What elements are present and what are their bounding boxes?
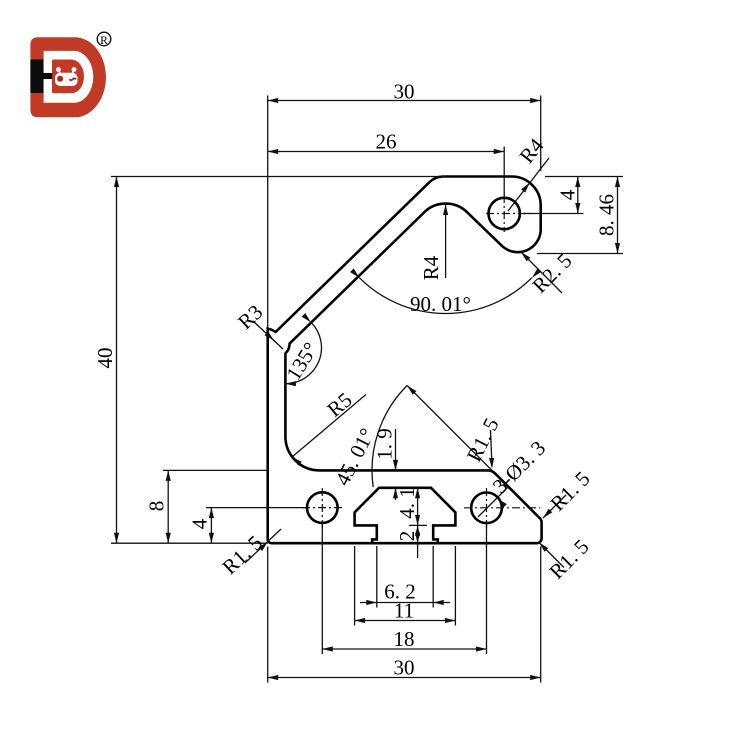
leader R5	[292, 395, 366, 458]
leader R1.5 right-mid	[543, 495, 566, 518]
svg-text:40: 40	[93, 348, 117, 369]
dim 4 left	[210, 508, 212, 544]
svg-text:90. 01°: 90. 01°	[410, 292, 471, 316]
logo inner red blob	[52, 60, 84, 94]
dim 135 deg	[285, 322, 321, 384]
svg-text:26: 26	[376, 130, 397, 154]
dim 18	[322, 648, 486, 650]
T-slot channel	[355, 488, 456, 543]
svg-text:30: 30	[394, 656, 415, 680]
profile outline	[268, 176, 542, 543]
leader R4 top-right	[508, 158, 549, 211]
dim 11	[355, 620, 456, 622]
svg-text:4: 4	[188, 518, 212, 529]
leader 3-dia3.3	[478, 487, 508, 517]
centerline bottom-right hole	[464, 507, 540, 509]
dim 8.46	[617, 177, 619, 254]
logo outer red D ring	[30, 37, 106, 117]
svg-text:R: R	[100, 35, 108, 47]
hole bottom-left	[307, 492, 338, 523]
svg-text:2: 2	[395, 531, 419, 542]
hole bottom-right	[471, 493, 502, 524]
dim 1.9	[395, 429, 397, 470]
svg-text:30: 30	[394, 80, 415, 104]
svg-text:18: 18	[394, 627, 415, 651]
logo black H bar	[30, 60, 43, 94]
dim 30 bottom	[268, 677, 541, 679]
centerline bottom-left hole	[302, 507, 344, 509]
dim 26	[268, 151, 505, 153]
leader R1.5 bottom-right	[539, 543, 564, 568]
dim 40	[116, 177, 118, 544]
dim 4.1	[417, 488, 419, 558]
svg-text:11: 11	[394, 599, 414, 623]
registered mark	[97, 32, 111, 46]
leader R1.5 bottom-left	[245, 529, 281, 563]
leader R2.5	[521, 252, 562, 293]
leader R4 inner peak	[445, 205, 447, 279]
hole top	[489, 198, 520, 229]
dim 6.2	[360, 602, 450, 604]
dim 90.01 deg	[359, 278, 532, 314]
dim 45.01 deg	[372, 386, 407, 488]
dim 4 right	[577, 177, 579, 214]
svg-text:8. 46: 8. 46	[595, 194, 619, 236]
leader R3	[253, 321, 283, 349]
centerline top hole	[486, 213, 532, 215]
svg-text:8: 8	[145, 501, 169, 512]
svg-text:R4: R4	[419, 255, 443, 280]
svg-text:1. 9: 1. 9	[373, 428, 397, 460]
svg-text:4: 4	[556, 189, 580, 200]
robot eyes	[57, 76, 63, 82]
leader R1.5 chamfer-top	[491, 430, 493, 467]
dim 30 top	[268, 100, 541, 102]
svg-text:4. 1: 4. 1	[395, 487, 419, 519]
dim 2	[415, 525, 420, 536]
dim 8	[167, 470, 169, 543]
robot antennae	[59, 70, 60, 74]
robot head	[55, 73, 78, 86]
